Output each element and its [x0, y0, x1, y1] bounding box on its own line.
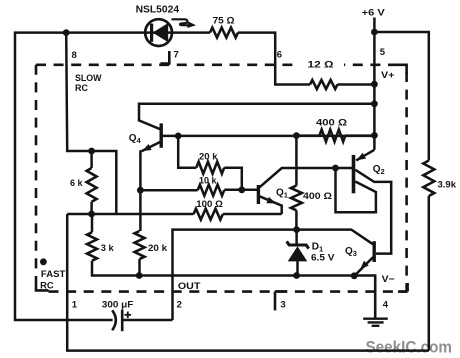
svg-text:Q2: Q2 [373, 164, 385, 176]
node: +6V top-right branch [371, 29, 378, 36]
node: junction pin-8 branch on top wire [63, 29, 70, 36]
capacitor 300 uF label [102, 300, 134, 311]
transistor Q1 bar [257, 185, 260, 204]
svg-text:Q3: Q3 [345, 246, 357, 258]
resistor 20 k (vertical) [135, 231, 145, 259]
pin 4 / ground wire [374, 276, 377, 319]
node: Q3 emitter junction [351, 272, 358, 279]
wire: top rail left segment with left loop (x=15) [15, 33, 145, 320]
resistor 100 ohm [194, 209, 223, 220]
label FAST RC [40, 269, 65, 292]
transistor Q4 base wire [163, 135, 375, 138]
resistor 20 k (horizontal) label [199, 151, 218, 162]
wire: 6k top lead [90, 151, 93, 168]
svg-text:300 μF: 300 μF [102, 300, 134, 311]
node: 400 ohm vertical top junction [293, 132, 300, 139]
resistor 3 k label [101, 243, 115, 254]
svg-text:V+: V+ [381, 70, 395, 81]
svg-text:4: 4 [383, 300, 389, 311]
LED NSL5024 wire through [145, 31, 173, 34]
label V+ [381, 70, 395, 81]
diode D1 top lead [295, 230, 298, 245]
wire: 100 ohm row left [67, 213, 193, 216]
wire: 400 ohm vertical top lead [295, 136, 298, 186]
diode D1 labels [311, 241, 335, 263]
label OUT [178, 281, 201, 292]
transistor Q4 collector wire from V+ row [139, 104, 374, 129]
wire: 20k vertical bottom lead [138, 259, 141, 275]
resistor 400 ohm (vertical) label [303, 191, 332, 202]
transistor Q1 collector to Q2 base wire [260, 168, 353, 187]
node: Q2 base branch junction [332, 165, 339, 172]
resistor 400 ohm (horizontal) [320, 130, 346, 142]
resistor 3.9k [423, 161, 434, 197]
transistor Q3 label [345, 246, 357, 258]
pin 3 stub [275, 291, 287, 310]
svg-text:V−: V− [382, 274, 395, 285]
node: 6k bottom junction [88, 211, 95, 218]
package boundary solid top-right corner [397, 65, 407, 74]
package boundary dashed left edge [35, 65, 38, 283]
node: 10k row left junction [137, 187, 144, 194]
wire: 10k left lead [140, 189, 197, 192]
svg-text:6.5 V: 6.5 V [311, 252, 335, 263]
svg-text:75 Ω: 75 Ω [213, 15, 235, 26]
wire: +6V stub and V+ rail down to Q2 emitter corner [373, 18, 376, 150]
capacitor 300 uF curved plate [112, 310, 116, 330]
svg-text:+6 V: +6 V [362, 8, 386, 19]
svg-text:OUT: OUT [178, 281, 201, 292]
pin 1 label [72, 300, 78, 311]
resistor 20 k (vertical) label [148, 243, 168, 254]
node: Q4 base / 20k branch [175, 133, 182, 140]
svg-text:20 k: 20 k [148, 243, 168, 254]
package boundary solid bottom-left corner [36, 283, 49, 291]
package boundary dashed top edge [36, 64, 407, 67]
wire: 3.9k bottom lead [428, 196, 431, 351]
label V- [382, 274, 395, 285]
svg-text:6 k: 6 k [70, 178, 83, 189]
transistor Q2 emitter with arrow from V+ corner [356, 150, 374, 161]
wire: 3k bottom lead and V- row [92, 261, 375, 319]
pin 7 stub [160, 51, 169, 65]
transistor Q4 bar [159, 123, 162, 147]
diode D1 anode triangle [288, 246, 308, 261]
svg-text:5: 5 [380, 47, 386, 58]
svg-text:RC: RC [75, 83, 88, 94]
svg-text:NSL5024: NSL5024 [136, 4, 180, 15]
transistor Q2 bar [352, 155, 356, 193]
pin 7 label [174, 50, 179, 61]
transistor Q4 emitter with arrow [142, 142, 161, 152]
node: 10k / 20k / Q1 base junction [238, 186, 245, 193]
wire: 400 ohm horizontal left lead [296, 134, 319, 137]
svg-text:2: 2 [177, 300, 182, 311]
pin 3 label [280, 299, 285, 310]
transistor Q1 emitter with arrow [260, 196, 282, 214]
capacitor 300 uF straight plate [121, 310, 124, 332]
wire: Q4 base branch down to 20k [178, 136, 196, 168]
node: D1 bottom junction [293, 272, 300, 279]
transistor Q3 bar [373, 241, 376, 262]
LED light emission squiggle arrow [172, 19, 197, 28]
resistor 100 ohm label [196, 199, 223, 210]
wire: 12 ohm right lead to V+ rail [338, 83, 375, 86]
svg-text:Q4: Q4 [129, 133, 142, 145]
resistor 400 ohm (horizontal) label [316, 117, 347, 128]
transistor Q2 collector 2 tied to base [336, 168, 376, 212]
svg-text:7: 7 [174, 50, 179, 61]
pin 8 label [72, 50, 77, 61]
wire: pin 1 line down and bottom return wire [67, 214, 429, 351]
transistor Q3 emitter with arrow [354, 257, 373, 276]
resistor 75 ohm [210, 28, 238, 38]
pin 6 label [277, 49, 282, 60]
svg-text:400 Ω: 400 Ω [303, 191, 332, 202]
label +6 V [362, 8, 386, 19]
wire: 75 ohm to pin-6 corner, down to 12 ohm row [238, 33, 310, 85]
wire: 100 ohm row right to Q1 emitter corner [223, 213, 282, 216]
svg-text:8: 8 [72, 50, 77, 61]
wire: OUT pin-2 line and Q3 base row [173, 230, 373, 320]
svg-text:400 Ω: 400 Ω [316, 117, 347, 128]
wire: Q1 base lead [224, 189, 257, 192]
ground symbol [363, 319, 388, 326]
resistor 6 k label [70, 178, 83, 189]
svg-text:SeekIC.com: SeekIC.com [366, 338, 453, 356]
wire: 400 ohm vertical bottom lead [295, 210, 298, 229]
watermark SeekIC.com [366, 338, 453, 356]
diode D1 bottom lead [296, 261, 299, 276]
node: 6k top junction [88, 148, 95, 155]
transistor Q2 collector 1 down to Q3 collector [355, 170, 391, 254]
svg-text:FAST: FAST [41, 269, 66, 280]
LED NSL5024 cathode bar [150, 24, 153, 42]
transistor Q1 label [276, 188, 288, 200]
LED NSL5024 circle [145, 19, 172, 46]
label SLOW RC [75, 73, 102, 94]
wire: capacitor right lead to pin-2 line [122, 319, 172, 322]
node: D1 top junction [293, 226, 300, 233]
resistor 12 ohm [310, 80, 337, 89]
svg-text:Q1: Q1 [276, 188, 288, 200]
package boundary dashed bottom edge [49, 290, 408, 293]
package boundary dashed right edge [405, 72, 408, 292]
svg-text:12 Ω: 12 Ω [308, 59, 334, 70]
svg-text:3.9k: 3.9k [438, 179, 457, 190]
resistor 3 k [87, 232, 97, 260]
svg-text:100 Ω: 100 Ω [196, 199, 223, 210]
LED NSL5024 anode triangle [153, 23, 169, 42]
pin 4 label [383, 300, 389, 311]
resistor 6 k [87, 168, 97, 202]
transistor Q2 label [373, 164, 385, 176]
node: V+ / Q4 collector wire junction [371, 100, 378, 107]
resistor 10 k [198, 185, 225, 196]
wire: 6k bottom lead [90, 202, 93, 214]
wire: 20k right lead down to 10k row [224, 168, 242, 190]
transistor Q4 label [129, 133, 142, 145]
resistor 10 k label [199, 176, 217, 187]
node marker: FAST RC bullet [40, 258, 47, 265]
diode D1 zener cathode bar [287, 241, 309, 248]
resistor 12 ohm label [299, 57, 344, 71]
resistor 75 ohm label [213, 15, 235, 26]
wire: pin 8 line down and over to 100-ohm row [66, 33, 116, 214]
svg-text:RC: RC [40, 281, 54, 292]
wire: top-right branch to 3.9k rail [374, 32, 428, 161]
resistor 20 k (horizontal) [196, 162, 224, 174]
svg-text:1: 1 [72, 300, 78, 311]
pin 2 label [177, 300, 182, 311]
resistor 3.9k label [438, 179, 457, 190]
wire: 400 ohm horizontal right lead [345, 134, 374, 137]
resistor 400 ohm (vertical) [291, 186, 302, 211]
wire: Q4 emitter down to 20k(vert) [139, 150, 142, 231]
pin 5 label [380, 47, 386, 58]
package boundary solid bottom-right corner [398, 283, 408, 292]
wire: 3k top lead [91, 214, 94, 232]
capacitor plus sign [125, 312, 132, 319]
node: V+ / 12 ohm junction [371, 81, 378, 88]
node: 20k / V- row junction [136, 272, 143, 279]
svg-text:3 k: 3 k [101, 243, 115, 254]
LED NSL5024 label [136, 4, 180, 15]
wire: LED right lead to 75 ohm [173, 31, 210, 34]
svg-text:3: 3 [280, 299, 285, 310]
node: V+ / 400 ohm junction [371, 132, 378, 139]
svg-text:6: 6 [277, 49, 282, 60]
